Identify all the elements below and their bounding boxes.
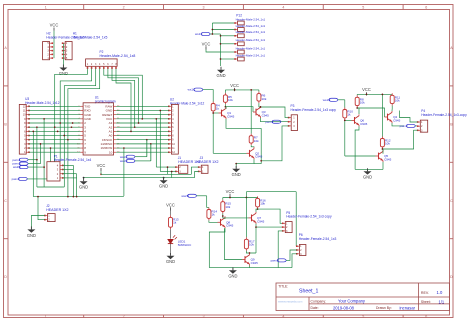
svg-text:C945: C945 (393, 118, 401, 122)
wire pwm4 to P6 pin2 (286, 250, 297, 260)
svg-text:Header-Male-2.54_1x5: Header-Male-2.54_1x5 (73, 36, 108, 40)
transistor Q1 C945 (219, 107, 235, 119)
wire flags to bus (28, 159, 37, 161)
wire J2 to ground (31, 216, 45, 230)
svg-text:Header-Female-2.54_1x3: Header-Female-2.54_1x3 (299, 237, 337, 241)
svg-text:Drawn By:: Drawn By: (376, 306, 392, 310)
svg-text:Company:: Company: (311, 299, 327, 303)
wire (156, 166, 176, 168)
svg-text:GND: GND (363, 175, 372, 180)
wire R17/Q9 collector node (246, 251, 256, 253)
wire J3 feed (191, 167, 198, 174)
svg-text:C: C (4, 199, 7, 203)
svg-text:Header-Male-2.54_1x1: Header-Male-2.54_1x1 (236, 17, 266, 21)
wire Q1/Q2 base column (212, 113, 214, 153)
wire P1 pins right (63, 164, 74, 166)
net flag ws1N (cell B) (323, 98, 338, 102)
wire GND rail (84, 177, 195, 179)
wire bus U3 to U1 (29, 105, 81, 107)
svg-text:C945: C945 (251, 261, 259, 265)
resistor R8 10k (355, 95, 365, 107)
ground (LED) (166, 253, 175, 264)
wire VCC rail A (234, 90, 236, 91)
wire (209, 220, 218, 222)
resistor R6 10k (257, 92, 267, 104)
wire VCC rail B (366, 94, 368, 95)
wire left columns down (37, 186, 64, 188)
wire VCC branch to P6 pin1 (245, 192, 247, 198)
wire P5 pin3 to gnd bracket (278, 231, 283, 268)
wire (258, 90, 260, 92)
wire Q9 emitter bracket (209, 266, 249, 268)
svg-text:wwww.easyeda.com: wwww.easyeda.com (278, 300, 303, 304)
svg-text:GND: GND (159, 184, 168, 189)
ground (rail mid) (163, 178, 165, 181)
svg-text:C945: C945 (227, 114, 235, 118)
svg-text:GND: GND (216, 73, 225, 78)
power flag VCC (top-left) (50, 23, 59, 31)
svg-text:1: 1 (45, 6, 47, 10)
wire VCC column to R12 (381, 94, 383, 136)
wire P2 left fan (55, 69, 88, 162)
svg-text:ws1C: ws1C (188, 88, 196, 92)
wire VCC column to R7 (250, 90, 252, 134)
net flag ws2N (cell C) (181, 194, 196, 198)
svg-text:4: 4 (282, 315, 284, 319)
wire Q5 collector (382, 149, 384, 154)
svg-text:1k: 1k (212, 213, 216, 217)
wire Q5 base from left (345, 155, 376, 157)
wire (135, 156, 147, 158)
wire (170, 211, 172, 216)
svg-text:TITLE:: TITLE: (278, 284, 288, 288)
power flag VCC (LED) (166, 202, 175, 210)
svg-text:3: 3 (203, 6, 205, 10)
wire gnd bracket B (382, 162, 384, 169)
wire R15 to Q7 base (223, 214, 249, 218)
svg-text:Sheet:: Sheet: (421, 300, 431, 304)
wire (203, 90, 213, 102)
wire R16 bottom node (257, 208, 259, 210)
svg-text:GND: GND (166, 259, 175, 264)
svg-text:REV.: REV. (421, 291, 429, 295)
svg-text:C945: C945 (360, 122, 368, 126)
svg-text:2019-08-08: 2019-08-08 (333, 305, 355, 310)
power flag VCC (cell C) (226, 189, 235, 197)
wire P4 pin3 loop (382, 130, 417, 149)
svg-text:VCC: VCC (362, 87, 371, 92)
connector H2 (43, 42, 54, 61)
power flag VCC (1x1 column) (202, 41, 211, 49)
wire ws2N column (197, 195, 207, 197)
svg-text:D: D (450, 275, 453, 279)
net flag ws1C (120, 155, 135, 159)
resistor R7 10k (249, 134, 259, 145)
svg-text:Header-Male-2.54_1x1: Header-Male-2.54_1x1 (236, 38, 266, 42)
svg-text:Sheet_1: Sheet_1 (299, 289, 318, 295)
power flag VCC (cell B) (362, 87, 371, 95)
transistor Q7 C945 (249, 212, 265, 224)
resistor R10 1k (343, 108, 353, 120)
svg-text:Date:: Date: (311, 306, 319, 310)
wire Q7 collector (256, 209, 258, 212)
transistor Q3 C945 (253, 106, 269, 118)
ground (cell B) (363, 168, 372, 179)
wire VCC rail (100, 171, 102, 174)
net flag pwm1 (12, 158, 28, 162)
transistor Q9 C945 (242, 254, 258, 266)
wire Q6 emitter down (355, 126, 359, 169)
svg-text:1k: 1k (173, 221, 177, 225)
power flag VCC (cell A) (230, 83, 239, 91)
svg-text:5MWHUC: 5MWHUC (178, 243, 192, 247)
resistor R15 10k (221, 200, 231, 214)
wire VCC rail C (229, 196, 231, 199)
wire Q7 emitter down (255, 227, 257, 253)
svg-text:pwm3: pwm3 (12, 177, 20, 181)
wire (170, 244, 172, 253)
power flag VCC (under U1) (97, 163, 106, 171)
svg-text:pwm2: pwm2 (400, 124, 408, 128)
svg-text:Header-Male-2.54_1x12: Header-Male-2.54_1x12 (25, 101, 60, 105)
wire 1x1 feed column upper (211, 23, 213, 34)
svg-text:GND: GND (59, 71, 68, 76)
svg-text:10k: 10k (260, 202, 265, 206)
ground (1x1 column) (216, 67, 225, 78)
wire (258, 103, 260, 107)
wire column lower (344, 120, 346, 156)
svg-text:10: 10 (109, 150, 113, 154)
wire P2 right fan (104, 69, 143, 119)
svg-text:GND: GND (27, 233, 36, 238)
svg-text:1k: 1k (347, 113, 351, 117)
wire Q9 base from left (224, 228, 242, 259)
wire to P4 (415, 125, 417, 127)
wire P3 pin1 (261, 107, 289, 118)
svg-text:2: 2 (123, 315, 125, 319)
svg-text:10k: 10k (254, 139, 259, 143)
wire Q3 collector (260, 106, 262, 107)
net flag ws2N (13, 165, 28, 169)
svg-text:Header-Male-2.54_1x1: Header-Male-2.54_1x1 (236, 30, 266, 34)
svg-text:1k: 1k (216, 107, 220, 111)
svg-text:C945: C945 (255, 155, 263, 159)
connector H1 (62, 42, 72, 61)
svg-text:pwm1: pwm1 (265, 120, 273, 124)
ground (J2) (27, 226, 36, 237)
svg-text:VCC: VCC (50, 23, 59, 28)
junction dots right bus (130, 131, 132, 133)
svg-text:Header-Female-2.54_1x3-copy: Header-Female-2.54_1x3-copy (421, 113, 467, 117)
wire Q3 emitter (261, 118, 289, 122)
LED LED1 (168, 229, 177, 243)
title block (276, 283, 450, 311)
svg-text:VCC: VCC (202, 41, 211, 46)
wire Q4 emitter + pwm2 flag (392, 123, 404, 126)
ground (U1 rail) (79, 178, 88, 189)
svg-text:VCC: VCC (97, 163, 106, 168)
svg-text:VCC: VCC (230, 83, 239, 88)
wire gnd bracket A to P3 pin3 (254, 126, 289, 164)
wire (62, 43, 64, 67)
wire Q2 emitter to gnd bracket (236, 159, 254, 163)
net flag pwm2 (12, 162, 28, 166)
svg-text:10k: 10k (385, 142, 390, 146)
svg-text:2: 2 (123, 6, 125, 10)
ground (cell A) (235, 164, 237, 169)
wire J1 taps to rails (167, 167, 169, 174)
svg-text:D: D (4, 275, 7, 279)
net flag pwm4 (271, 259, 287, 263)
svg-text:Header-Male-2.54_1x1: Header-Male-2.54_1x1 (236, 46, 266, 50)
resistor R17 10k (244, 237, 254, 251)
svg-text:HEADER 1X2: HEADER 1X2 (196, 160, 218, 164)
svg-text:incnasar: incnasar (400, 305, 416, 310)
svg-text:6: 6 (425, 315, 427, 319)
net flag ws1N (120, 159, 135, 163)
svg-text:ws2N: ws2N (13, 165, 21, 169)
transistor Q5 C945 (376, 150, 392, 162)
wires to 1x1 headers (221, 35, 235, 37)
wire (210, 33, 220, 35)
svg-text:4: 4 (282, 6, 284, 10)
net flag pwm3 (12, 177, 28, 181)
svg-text:10k: 10k (249, 243, 254, 247)
svg-text:ws1N: ws1N (120, 159, 128, 163)
svg-text:10k: 10k (225, 205, 230, 209)
svg-text:GND: GND (79, 185, 88, 190)
transistor Q2 C945 (247, 147, 263, 159)
wire (53, 31, 55, 44)
transistor Q4 C945 (385, 111, 401, 123)
wire to P5 pin1 (258, 209, 283, 223)
wire P6 pin3 to gnd bracket (292, 254, 297, 268)
svg-text:3: 3 (203, 315, 205, 319)
svg-text:ws1N: ws1N (323, 98, 331, 102)
resistor R13 1k (169, 215, 179, 229)
svg-text:Header-Female-2.54_1x3 copy: Header-Female-2.54_1x3 copy (291, 108, 337, 112)
svg-text:GND: GND (232, 172, 241, 177)
wire R5 bottom to Q3 base (224, 104, 226, 106)
svg-text:HEADER 1X2: HEADER 1X2 (46, 208, 68, 212)
svg-text:Header-Male-2.54_1x1: Header-Male-2.54_1x1 (236, 24, 266, 28)
svg-text:pwm4: pwm4 (271, 259, 279, 263)
svg-text:Header-Male-2.54_1x8: Header-Male-2.54_1x8 (100, 54, 136, 58)
svg-text:10k: 10k (228, 98, 233, 102)
svg-text:Header-Female-2.54_1x3 copy: Header-Female-2.54_1x3 copy (286, 215, 332, 219)
wire ws1N column (338, 99, 345, 101)
resistor R12 10k (380, 137, 390, 149)
svg-text:10k: 10k (360, 101, 365, 105)
svg-text:6: 6 (425, 6, 427, 10)
svg-text:1.0: 1.0 (437, 290, 443, 295)
resistor R4 1k (211, 102, 220, 113)
wire R8 bottom to Q4 base (356, 107, 358, 109)
svg-text:ws1C: ws1C (195, 32, 203, 36)
svg-text:C945: C945 (262, 113, 270, 117)
junction dots left bus (32, 131, 34, 133)
wire VCC column to R17 (245, 198, 247, 238)
wire P4 pin1 (400, 111, 418, 123)
svg-text:VCC: VCC (226, 189, 235, 194)
wire Q8 emitter down (209, 228, 225, 267)
wire Q4 collector (391, 106, 393, 111)
net flag pwm1 (cell A) (265, 120, 281, 124)
svg-text:C945: C945 (384, 157, 392, 161)
svg-text:Header-Male-2.54_1x1: Header-Male-2.54_1x1 (236, 53, 266, 57)
wire bus U1 to U2 (116, 105, 169, 107)
net flag ws1C (top) (195, 32, 210, 36)
transistor Q6 C945 (352, 114, 368, 126)
resistor R16 10k (257, 197, 259, 200)
svg-text:C945: C945 (257, 219, 265, 223)
svg-text:1: 1 (45, 315, 47, 319)
svg-text:5: 5 (362, 6, 364, 10)
svg-text:Your Company: Your Company (338, 299, 366, 304)
svg-text:VCC: VCC (166, 202, 175, 207)
wire (381, 148, 383, 150)
resistor R9t 10k (390, 93, 400, 105)
ground (cell C) (228, 267, 237, 278)
resistor R14 1k (207, 208, 217, 221)
svg-text:C: C (450, 199, 453, 203)
svg-text:ws2N: ws2N (181, 194, 189, 198)
wire Q2 base from left (213, 152, 246, 154)
wire verticals crossing right bus (146, 140, 148, 157)
svg-text:1/1: 1/1 (439, 299, 445, 304)
net flag ws1C (cell A) (188, 88, 203, 92)
svg-text:GND: GND (228, 274, 237, 279)
wire (27, 178, 47, 180)
ground (H1) (59, 65, 68, 76)
wire Q7 emitter to P5 pin2 (256, 224, 283, 227)
transistor Q8 C945 (218, 216, 234, 228)
svg-text:10k: 10k (395, 99, 400, 103)
svg-text:C945: C945 (226, 224, 234, 228)
wire 1x1 gnd bus (220, 34, 222, 66)
wire R7 to Q2 collector (251, 145, 254, 147)
wire verticals crossing left bus (32, 131, 34, 196)
svg-text:10k: 10k (262, 97, 267, 101)
wire Q1 emitter right (226, 119, 261, 128)
resistor R5 10k (223, 93, 233, 104)
svg-text:5: 5 (362, 315, 364, 319)
